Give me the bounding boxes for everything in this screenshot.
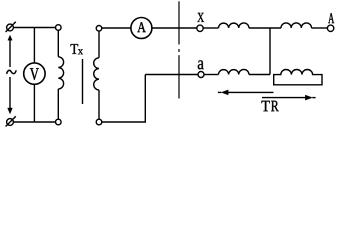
- terminal X: [197, 13, 204, 32]
- wire secondary top to ammeter: [102, 27, 131, 29]
- voltmeter V: [24, 28, 45, 123]
- arrow left (TR travel): [218, 90, 274, 95]
- boundary dash-dot line: [178, 1, 180, 98]
- inductor L3 (common winding): [219, 69, 249, 74]
- wire L3 to junction: [249, 74, 270, 76]
- wire secondary bottom: [102, 75, 146, 123]
- label TR: [262, 101, 270, 111]
- terminal A: [327, 13, 334, 31]
- movable regulating winding TR (coil on yoke box): [274, 70, 322, 85]
- wire L1 to L2 with junction: [249, 27, 281, 29]
- AC source (variable supply arrow with ~): [7, 35, 17, 114]
- wire X to L1: [203, 27, 218, 29]
- inductor L2 (series winding section): [281, 23, 312, 28]
- wire junction drop: [269, 28, 271, 75]
- terminal a: [198, 60, 204, 77]
- terminal bottom-left (slashed circle): [6, 116, 16, 126]
- transformer core: [82, 59, 84, 104]
- wire L2 to terminal A: [312, 27, 328, 29]
- wire lower row to a: [145, 74, 198, 76]
- wire bottom rail: [13, 121, 55, 123]
- transformer Tx primary winding: [56, 25, 64, 125]
- wire ammeter to X: [152, 27, 197, 29]
- inductor L1 (series winding section): [219, 23, 249, 28]
- label Tx: [71, 44, 79, 54]
- transformer Tx secondary winding: [94, 26, 102, 125]
- terminal top-left (slashed circle): [6, 22, 16, 32]
- arrow right (TR travel): [262, 95, 316, 100]
- wire a to L3: [204, 74, 219, 76]
- ammeter A: [131, 18, 152, 39]
- wire top rail: [13, 27, 55, 29]
